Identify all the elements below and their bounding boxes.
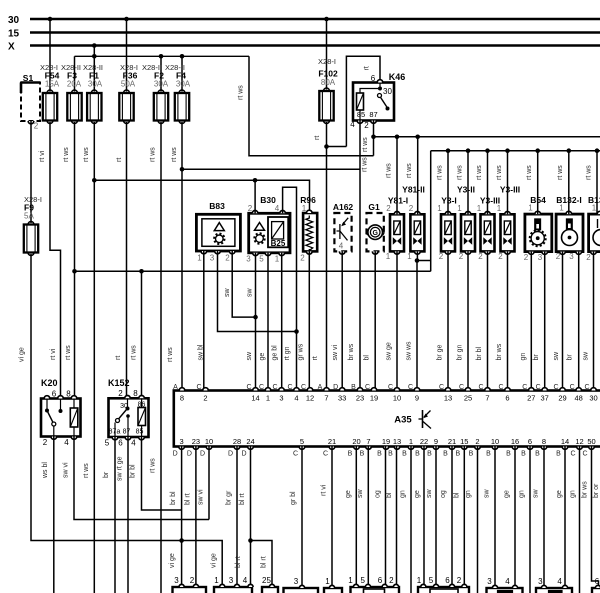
svg-text:B: B (415, 451, 420, 458)
svg-text:2: 2 (439, 252, 444, 261)
svg-text:5A: 5A (24, 212, 34, 221)
svg-text:2: 2 (386, 204, 391, 213)
svg-text:C: C (459, 384, 464, 391)
K20 coil (70, 408, 78, 427)
svg-text:28: 28 (233, 437, 241, 446)
wire A35 B6 down (529, 447, 531, 593)
svg-text:sw ge: sw ge (386, 342, 393, 360)
svg-text:30: 30 (383, 87, 392, 96)
svg-text:C: C (498, 384, 503, 391)
bus 271 (coil feed) (75, 270, 431, 272)
wire bus30 to F102 (326, 19, 328, 90)
svg-text:X: X (8, 42, 15, 53)
connector X1320 (418, 587, 469, 593)
svg-text:ge: ge (504, 490, 511, 498)
svg-text:C: C (570, 384, 575, 391)
svg-text:sw vi: sw vi (332, 345, 339, 361)
svg-text:rt ws: rt ws (437, 165, 444, 180)
svg-text:4: 4 (243, 576, 248, 585)
svg-text:1: 1 (559, 204, 564, 213)
wire bus B left end down (430, 151, 432, 272)
svg-text:85: 85 (357, 110, 365, 119)
svg-text:22: 22 (420, 437, 428, 446)
wire line E from F1 to R96 (94, 180, 309, 211)
svg-text:ge: ge (556, 490, 563, 498)
svg-text:sw: sw (583, 351, 590, 361)
svg-text:2: 2 (364, 121, 369, 130)
svg-text:C: C (522, 384, 527, 391)
wires valves down to A35 (396, 251, 398, 390)
svg-text:B30: B30 (260, 195, 276, 205)
svg-text:rt ws: rt ws (586, 165, 593, 180)
svg-text:rt ws: rt ws (150, 147, 157, 162)
svg-text:3: 3 (487, 577, 492, 586)
svg-text:bl rt: bl rt (261, 556, 268, 568)
wire bus30 to F36 (126, 19, 128, 92)
svg-text:br ws: br ws (496, 343, 503, 360)
svg-text:rt gn: rt gn (284, 346, 291, 360)
svg-text:A: A (318, 384, 323, 391)
svg-text:gn: gn (400, 490, 407, 498)
wires B13 feed and output (596, 151, 598, 214)
svg-text:sw: sw (357, 489, 364, 499)
connector X747 (284, 588, 319, 593)
svg-text:bl rt: bl rt (235, 556, 242, 568)
svg-text:C: C (388, 384, 393, 391)
svg-text:B25: B25 (271, 239, 286, 248)
svg-text:rt ws: rt ws (362, 157, 369, 172)
svg-text:2: 2 (34, 122, 39, 131)
bus X (30, 44, 600, 47)
svg-text:C: C (272, 384, 277, 391)
wire K20 pin2 down (ws bl) (53, 437, 55, 593)
svg-text:3: 3 (279, 394, 283, 403)
K46 contact 30 (379, 83, 381, 89)
svg-text:6: 6 (445, 576, 450, 585)
wire B30 pin4 loop over to A35 C4 (283, 187, 297, 390)
wires A35 B20 B7 B19 B13 down to X1319 (355, 447, 357, 588)
svg-text:rt ws: rt ws (83, 463, 90, 478)
sensor B132-I box (556, 214, 583, 252)
svg-text:ge: ge (345, 490, 352, 498)
svg-text:rt ws: rt ws (167, 347, 174, 362)
K46 coil (357, 93, 364, 110)
B30 bottom pins 3 5 1 (253, 253, 259, 256)
sensor A162 dashed box (334, 213, 351, 251)
svg-text:D: D (187, 451, 192, 458)
wire K152 pin5 down (br) (114, 437, 116, 593)
svg-text:vi ge: vi ge (169, 553, 176, 568)
svg-text:sw ws: sw ws (406, 341, 413, 361)
svg-text:2: 2 (300, 254, 305, 263)
svg-text:C: C (196, 384, 201, 391)
svg-text:A35: A35 (394, 415, 412, 426)
svg-text:ge: ge (414, 490, 421, 498)
svg-text:87a: 87a (109, 429, 121, 436)
B25 inner box (268, 217, 288, 247)
svg-text:D: D (333, 384, 338, 391)
svg-text:9: 9 (434, 437, 438, 446)
svg-text:B: B (443, 451, 448, 458)
K152 top pins 2 8 (125, 396, 131, 399)
svg-text:C: C (408, 384, 413, 391)
wire F3 down to K20 pin8 (74, 122, 76, 399)
svg-text:vi ge: vi ge (211, 553, 218, 568)
svg-text:rt ws: rt ws (63, 147, 70, 162)
svg-text:vi ge: vi ge (19, 347, 26, 362)
wires bus A to Y81 valves (396, 137, 398, 215)
svg-text:8: 8 (180, 394, 184, 403)
wire K46 pin4 down to A35 B23 (359, 121, 361, 391)
svg-text:20: 20 (352, 437, 360, 446)
svg-text:B: B (506, 451, 511, 458)
svg-text:21: 21 (448, 437, 456, 446)
svg-text:30: 30 (589, 394, 597, 403)
svg-text:rt ws: rt ws (476, 165, 483, 180)
svg-text:1: 1 (528, 204, 533, 213)
wire S1 down to F9 (30, 121, 32, 223)
wire bus30 to F54 (49, 19, 51, 92)
svg-text:B: B (455, 451, 460, 458)
svg-text:F102: F102 (318, 69, 338, 79)
svg-text:8: 8 (133, 389, 138, 398)
svg-text:rt ws: rt ws (83, 147, 90, 162)
svg-text:5: 5 (259, 255, 264, 264)
wire A35 C21 down (rt vi) (331, 447, 333, 589)
svg-text:br bl: br bl (130, 464, 137, 478)
wire A35 D23 down (bl rt) (195, 447, 197, 588)
svg-text:15A: 15A (45, 80, 60, 89)
B83 gear symbol (216, 235, 224, 243)
svg-text:27: 27 (527, 394, 535, 403)
svg-text:4: 4 (64, 438, 69, 447)
svg-text:25: 25 (262, 576, 271, 585)
wires A35 B9 B21 B15 B2 down to X1320 (435, 447, 437, 588)
svg-text:X28-I: X28-I (318, 57, 336, 66)
svg-text:G1: G1 (368, 202, 380, 212)
junction dots on buses (48, 17, 53, 22)
svg-text:14: 14 (561, 437, 569, 446)
fuse F36 body (124, 90, 130, 93)
svg-text:19: 19 (370, 394, 378, 403)
svg-text:Y3-III: Y3-III (500, 185, 520, 195)
bl rt branch to X762 (251, 541, 273, 588)
connector X1251 (536, 588, 572, 593)
B83 pins 1 3 2 (201, 251, 207, 254)
svg-text:37: 37 (541, 394, 549, 403)
svg-text:og: og (375, 490, 382, 498)
svg-text:4: 4 (557, 577, 562, 586)
K152 coil (138, 408, 146, 426)
svg-text:3: 3 (174, 576, 179, 585)
svg-text:1: 1 (302, 204, 307, 213)
sensor B13 box (cut at edge) (589, 214, 600, 252)
svg-text:sw: sw (246, 351, 253, 361)
relay K46 box (353, 83, 394, 121)
svg-text:D: D (241, 451, 246, 458)
svg-text:33: 33 (338, 394, 346, 403)
svg-text:1: 1 (497, 204, 502, 213)
svg-text:C: C (582, 451, 587, 458)
svg-text:48: 48 (575, 394, 583, 403)
wires bus B to Y3 valves (447, 151, 449, 215)
svg-text:24: 24 (246, 437, 254, 446)
svg-text:br: br (103, 471, 110, 478)
svg-text:B: B (377, 451, 382, 458)
svg-text:sw bl: sw bl (198, 344, 205, 360)
svg-text:rt ws: rt ws (406, 163, 413, 178)
wire K46 pin2 down / bus A (373, 121, 375, 156)
svg-text:30: 30 (8, 15, 20, 26)
svg-text:15: 15 (460, 437, 468, 446)
svg-text:rt: rt (115, 356, 122, 360)
svg-text:gr bl: gr bl (290, 491, 297, 505)
svg-text:Y3-I: Y3-I (441, 196, 457, 206)
wire B83 pin1 to A35 C2 (203, 251, 205, 391)
wire A35 D28 down (br gr) (236, 447, 238, 588)
svg-text:ws bl: ws bl (42, 462, 49, 479)
svg-text:2: 2 (248, 204, 253, 213)
valve Y3-I body (441, 214, 455, 251)
connector X744 (173, 587, 207, 593)
valve Y81-I body (390, 214, 404, 251)
svg-text:rt vi: rt vi (39, 150, 46, 162)
bus A (rt ws distribution) (374, 136, 600, 138)
B30 gear symbol (256, 235, 264, 243)
svg-text:B83: B83 (209, 201, 225, 211)
wire F54 down to K20 pin6 with jog (50, 122, 61, 399)
svg-text:D: D (228, 451, 233, 458)
svg-text:sw vi: sw vi (198, 489, 205, 505)
K20 bottom pins 2 4 (51, 437, 57, 440)
relay K152 box (109, 398, 149, 437)
svg-text:13: 13 (444, 394, 452, 403)
svg-text:1: 1 (437, 204, 442, 213)
bus 15 (30, 31, 600, 34)
svg-text:B: B (427, 451, 432, 458)
wire corner x249 down (249, 56, 374, 155)
fuse F102 body (324, 88, 330, 91)
R96 zigzag (306, 216, 313, 251)
sensor B30 box (249, 213, 290, 253)
svg-text:23: 23 (356, 394, 364, 403)
svg-text:86: 86 (138, 402, 146, 409)
svg-text:29: 29 (558, 394, 566, 403)
svg-text:1: 1 (592, 204, 597, 213)
svg-text:19: 19 (382, 437, 390, 446)
svg-text:rt: rt (364, 66, 371, 70)
svg-text:3: 3 (246, 255, 251, 264)
bus B (valve feed) (431, 150, 600, 152)
svg-text:25: 25 (464, 394, 472, 403)
svg-text:80A: 80A (321, 78, 336, 87)
svg-text:3: 3 (569, 252, 574, 261)
svg-text:10: 10 (491, 437, 499, 446)
wires B54 feed and outputs (537, 151, 539, 214)
svg-text:6: 6 (595, 577, 600, 586)
svg-text:1: 1 (409, 437, 413, 446)
wire subbus to F3 (74, 56, 76, 91)
wires A35 B10 B16 down to X1250 (494, 447, 496, 589)
svg-text:br ge: br ge (437, 344, 444, 360)
svg-text:23: 23 (192, 437, 200, 446)
svg-text:1: 1 (214, 576, 219, 585)
wire A35 D24 down (bl rt) (250, 447, 252, 588)
K20 top pins 6 8 (44, 396, 50, 399)
wire line D from F4 to K46 pin4 line (180, 167, 185, 172)
wire B83 pin3 jog to C4 riser (218, 251, 297, 332)
wire bus271 to K152 pin8 (141, 271, 143, 398)
svg-text:B: B (469, 451, 474, 458)
svg-text:C: C (323, 451, 328, 458)
svg-text:30A: 30A (176, 80, 191, 89)
svg-text:sw rt ge: sw rt ge (117, 456, 124, 481)
svg-text:og: og (440, 490, 447, 498)
svg-text:10: 10 (205, 437, 213, 446)
fuse F54 body (47, 90, 53, 93)
svg-text:87: 87 (369, 110, 377, 119)
svg-text:sw: sw (426, 489, 433, 499)
wire A35 C5 down (gr bl) (301, 447, 303, 589)
svg-text:1: 1 (407, 252, 412, 261)
svg-text:C: C (584, 384, 589, 391)
svg-text:6: 6 (52, 390, 57, 399)
svg-text:A: A (173, 384, 178, 391)
wire B83 pin2 jog to C14 riser (232, 251, 255, 317)
svg-text:1: 1 (386, 252, 391, 261)
svg-text:30A: 30A (154, 80, 169, 89)
resistor R96 box (303, 213, 317, 251)
svg-text:C: C (536, 384, 541, 391)
valve Y3-II body (461, 214, 475, 251)
svg-text:50A: 50A (121, 80, 136, 89)
svg-text:2: 2 (190, 576, 195, 585)
svg-text:bl rt: bl rt (185, 493, 192, 505)
K20 contact (46, 399, 48, 411)
svg-text:C: C (287, 384, 292, 391)
wire F102 junction to K46 pin6 riser (327, 146, 347, 148)
svg-text:sw: sw (224, 288, 231, 298)
svg-text:sw: sw (533, 489, 540, 499)
sensor B54 box (525, 214, 552, 252)
svg-text:2: 2 (225, 254, 230, 263)
svg-text:B: B (360, 451, 365, 458)
svg-text:C: C (553, 384, 558, 391)
wire F36 down to K152 pin2 (126, 122, 128, 398)
generator G1 dashed box (367, 213, 384, 251)
svg-text:4: 4 (131, 439, 136, 448)
wire B30 pin1 to A35 C3 (281, 253, 283, 391)
svg-text:85: 85 (136, 429, 144, 436)
svg-text:4: 4 (294, 394, 298, 403)
K152 contact 30 (127, 398, 129, 408)
svg-text:12: 12 (306, 394, 314, 403)
svg-text:rt ws: rt ws (65, 345, 72, 360)
svg-text:2: 2 (586, 253, 591, 262)
fuse F9 body (28, 222, 34, 225)
svg-text:B: B (535, 451, 540, 458)
K46 pin 2 (87) (371, 121, 377, 124)
svg-text:C: C (293, 451, 298, 458)
wire F4 down to A35 A8 (181, 122, 183, 391)
fuse F4 body (179, 90, 185, 93)
svg-text:C: C (478, 384, 483, 391)
svg-text:20A: 20A (67, 80, 82, 89)
connector X746 (262, 587, 278, 593)
wire R96 pin2 to A35 C12 (308, 251, 310, 390)
svg-text:9: 9 (415, 394, 419, 403)
svg-text:87: 87 (123, 429, 131, 436)
X feed sub-bus right segment to K46 (346, 56, 380, 146)
svg-text:bl rt: bl rt (239, 493, 246, 505)
svg-text:Y81-II: Y81-II (402, 185, 425, 195)
valve Y81-II body (410, 214, 424, 251)
wire A35 D3 down to X744 pin3 (181, 447, 183, 588)
A35 diagnostic arrow symbol (422, 410, 424, 428)
wire B30 pin5 to A35 C1 (267, 253, 269, 391)
K46 pin 6 (377, 80, 383, 83)
svg-text:C: C (301, 384, 306, 391)
svg-text:gn: gn (519, 490, 526, 498)
wire K20 pin4 jog (sw vi) (74, 437, 209, 520)
svg-text:br bl: br bl (170, 491, 177, 505)
svg-text:K152: K152 (108, 378, 130, 388)
svg-text:bl: bl (454, 492, 461, 498)
svg-text:2: 2 (478, 252, 483, 261)
svg-text:2: 2 (43, 438, 48, 447)
wire A35 C12 down (579, 447, 581, 593)
wire B30 pin3 to A35 C14 (255, 253, 257, 391)
svg-text:1: 1 (417, 576, 422, 585)
svg-text:B: B (402, 451, 407, 458)
svg-text:br ws: br ws (348, 343, 355, 360)
svg-text:ge bl: ge bl (272, 345, 279, 361)
wire A35 B22 down to X1320 (423, 447, 425, 588)
svg-text:2: 2 (118, 389, 123, 398)
svg-text:3: 3 (538, 577, 543, 586)
svg-text:7: 7 (366, 437, 370, 446)
wire A35 D10 down (sw vi) (208, 447, 210, 520)
wires A35 B8 B14 down to X1251 (543, 447, 545, 589)
wire busX down to F1 (93, 46, 95, 92)
svg-text:C: C (439, 384, 444, 391)
svg-text:rt ws: rt ws (386, 163, 393, 178)
svg-text:rt ws: rt ws (131, 345, 138, 360)
svg-text:br bl: br bl (476, 346, 483, 360)
svg-text:br: br (567, 354, 574, 361)
svg-text:rt vi: rt vi (50, 348, 57, 360)
wire K152 pin6 down (sw rt ge) (127, 437, 129, 593)
svg-text:bl: bl (364, 355, 371, 361)
svg-text:30A: 30A (88, 80, 103, 89)
svg-text:B: B (348, 451, 353, 458)
svg-text:7: 7 (324, 394, 328, 403)
svg-text:30: 30 (120, 403, 128, 410)
svg-text:br: br (533, 354, 540, 361)
fuse F3 body (72, 90, 78, 93)
wire F102 down to A35 pin A7 (326, 122, 328, 391)
svg-text:5: 5 (300, 437, 304, 446)
svg-text:gn: gn (570, 490, 577, 498)
svg-text:C: C (259, 384, 264, 391)
wire A35 B1 down (410, 447, 412, 593)
valve Y3-III body (481, 214, 495, 251)
svg-text:2: 2 (409, 204, 414, 213)
svg-text:2: 2 (389, 576, 394, 585)
svg-text:br or: br or (593, 483, 600, 498)
svg-text:rt: rt (116, 158, 123, 162)
connector X1319 (351, 587, 400, 593)
